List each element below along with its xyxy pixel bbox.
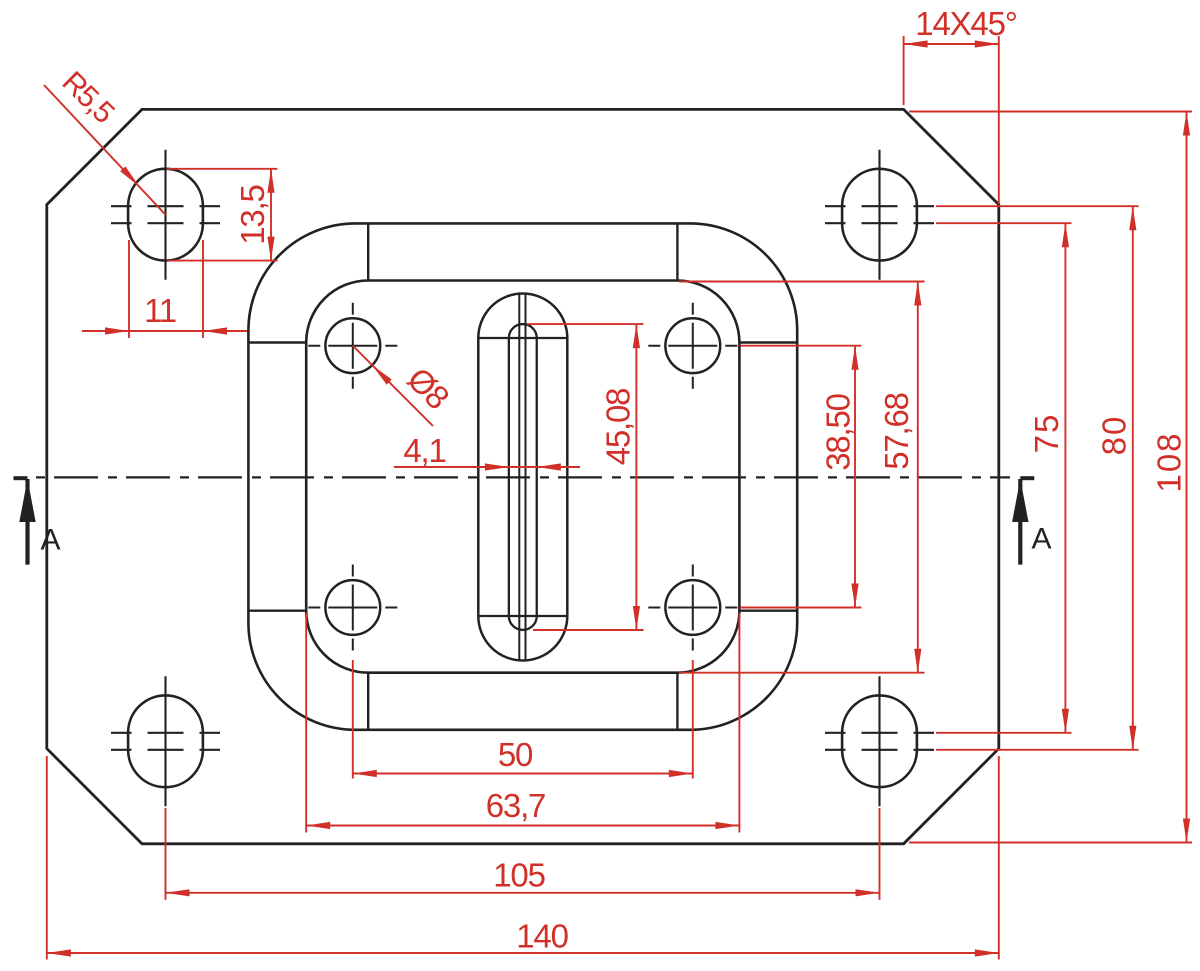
hole D8 bottom-right — [648, 565, 737, 651]
slot chord line top — [478, 337, 567, 339]
boss inner rounded rectangle 63.7x57.68 — [306, 281, 739, 673]
corner edge line left-bottom horizontal — [248, 610, 306, 612]
svg-text:80: 80 — [1096, 415, 1133, 456]
corner edge line left-top horizontal — [248, 341, 306, 343]
dim text 13,5 — [234, 185, 271, 244]
dim text 14X45deg — [915, 5, 1016, 42]
outer slot obround — [478, 294, 567, 661]
dim text 105 — [493, 857, 544, 894]
dimension 14X45 chamfer — [904, 36, 999, 204]
corner edge line bottom-right vertical — [676, 673, 678, 730]
corner edge line right-bottom horizontal — [739, 610, 797, 612]
svg-text:14X45°: 14X45° — [915, 5, 1016, 42]
corner edge line top-right vertical — [676, 223, 678, 280]
svg-text:38,50: 38,50 — [820, 393, 857, 470]
dimension 63,7 — [306, 613, 739, 833]
dim text 108 — [1151, 431, 1188, 492]
leader R5.5 — [44, 85, 166, 215]
oval mounting hole top-right R5.5 — [825, 150, 934, 280]
dimension 108 — [909, 112, 1192, 843]
dim text 38,50 — [820, 393, 857, 470]
dimension 50 — [353, 660, 693, 779]
svg-text:11: 11 — [144, 292, 176, 329]
dimension 4,1 — [394, 463, 580, 470]
svg-text:63,7: 63,7 — [486, 787, 545, 824]
oval mounting hole bottom-left R5.5 — [111, 676, 220, 806]
corner edge line top-left vertical — [367, 223, 369, 280]
plate outline (140x108 chamfered) — [47, 109, 999, 843]
svg-text:50: 50 — [498, 736, 533, 773]
dimension 11 — [82, 240, 247, 338]
corner edge line right-top horizontal — [739, 341, 797, 343]
dim text 57,68 — [878, 393, 915, 470]
svg-text:75: 75 — [1028, 413, 1065, 454]
dimension 57,68 — [679, 282, 925, 673]
oval mounting hole bottom-right R5.5 — [825, 676, 934, 806]
dimension 13,5 — [167, 169, 278, 261]
section arrow A left — [14, 478, 36, 564]
horizontal center line — [36, 476, 1010, 478]
svg-text:A: A — [40, 524, 60, 557]
dimension 75 — [936, 223, 1072, 733]
hole D8 top-left — [308, 303, 397, 389]
hole D8 bottom-left — [308, 565, 397, 651]
section arrow A right — [1012, 478, 1034, 564]
dimension 80 — [936, 206, 1139, 750]
label A right — [1031, 523, 1051, 556]
svg-text:13,5: 13,5 — [234, 185, 271, 244]
dimension 45,08 — [527, 324, 644, 630]
svg-text:108: 108 — [1151, 431, 1188, 492]
oval mounting hole top-left R5.5 — [111, 150, 220, 280]
corner edge line bottom-left vertical — [367, 673, 369, 730]
dim text R5,5 — [56, 65, 121, 129]
svg-text:105: 105 — [493, 857, 544, 894]
leader D8 — [353, 346, 433, 426]
label A left — [40, 524, 60, 557]
dimension 105 — [166, 808, 880, 900]
dim text 140 — [516, 918, 568, 955]
hole D8 top-right — [648, 303, 737, 389]
dim text 11 — [144, 292, 176, 329]
slit line right — [525, 294, 527, 660]
svg-text:45,08: 45,08 — [600, 389, 637, 466]
slot chord line bottom — [478, 615, 567, 617]
dim text 63,7 — [486, 787, 545, 824]
dim text 4,1 — [403, 432, 445, 469]
svg-text:57,68: 57,68 — [878, 393, 915, 470]
svg-text:140: 140 — [516, 918, 568, 955]
dimension 38,50 — [740, 346, 862, 608]
slit line left — [518, 294, 520, 660]
dim text D8 — [400, 360, 456, 416]
dim text 45,08 — [600, 389, 637, 466]
dim text 75 — [1028, 413, 1065, 454]
boss outer rounded rectangle — [248, 223, 797, 729]
dim text 50 — [498, 736, 533, 773]
svg-text:4,1: 4,1 — [403, 432, 445, 469]
inner slot obround 4.1x45.08 — [509, 324, 537, 630]
dimension 140 — [47, 756, 999, 960]
dim text 80 — [1096, 415, 1133, 456]
svg-text:A: A — [1031, 523, 1051, 556]
